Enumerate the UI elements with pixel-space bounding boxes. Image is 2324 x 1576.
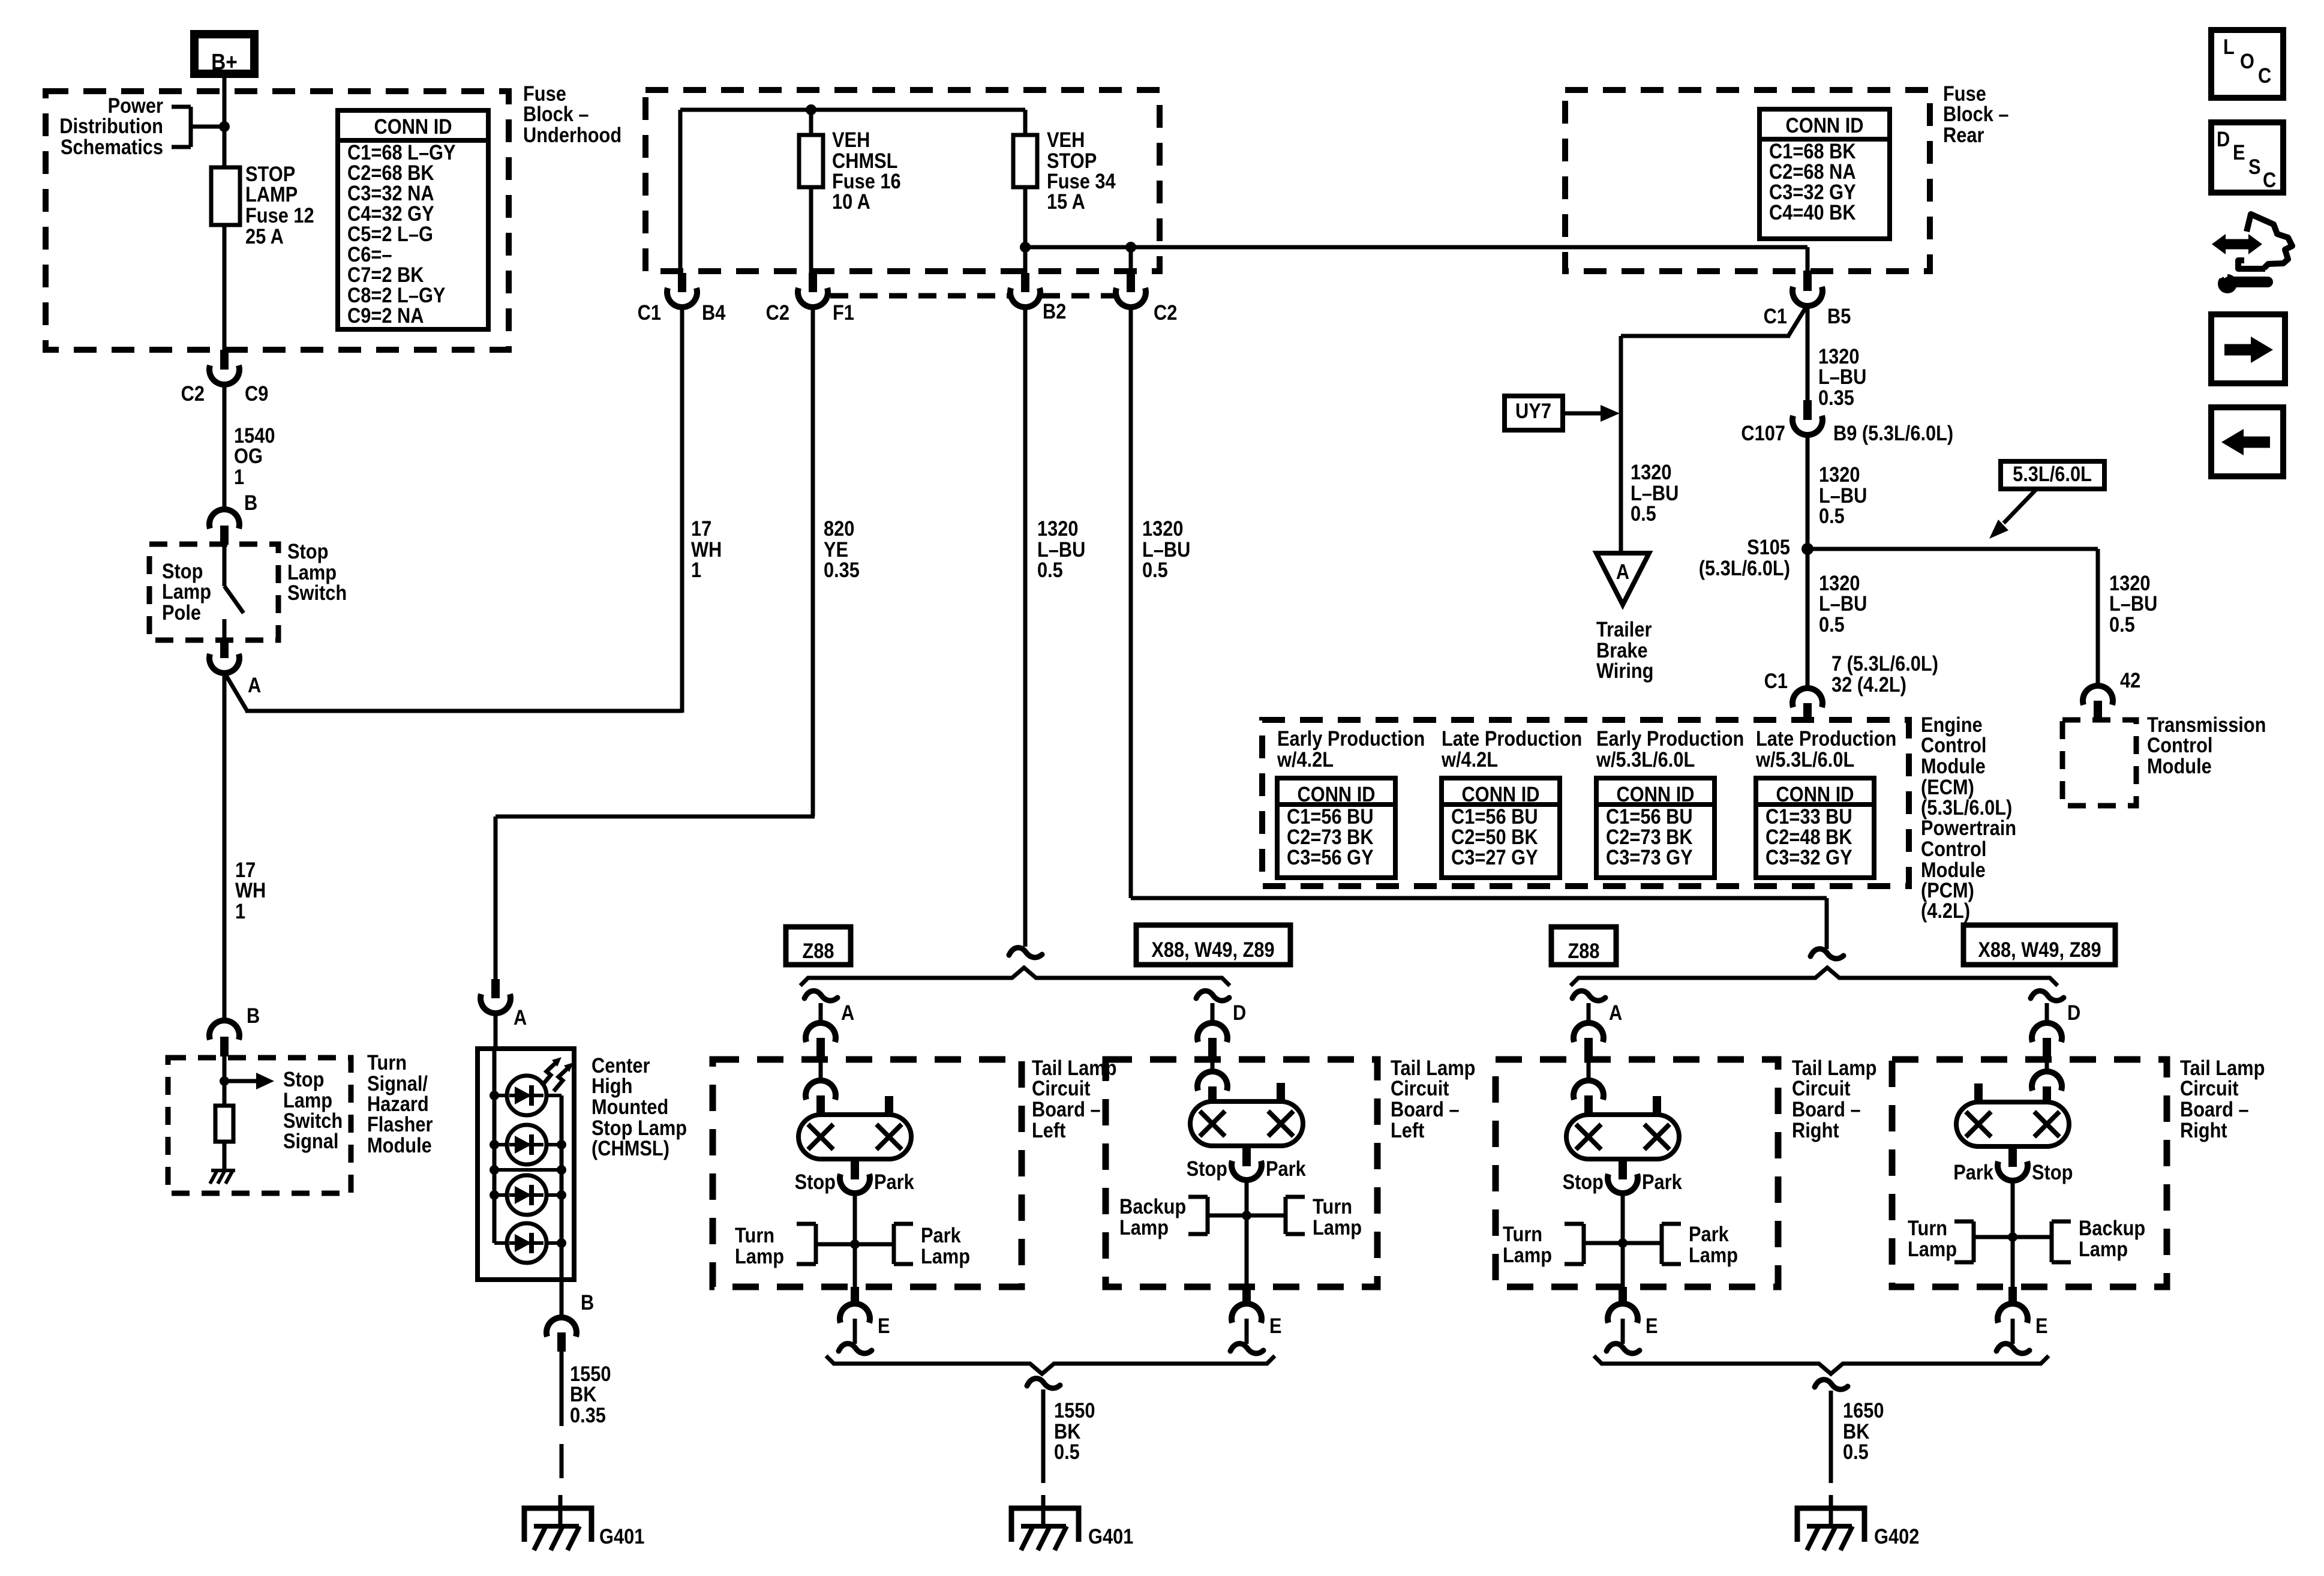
node C2 branch (1125, 242, 1136, 253)
tail lamp bulb (circuit 3) (1566, 1115, 1679, 1159)
label Stop Lamp Pole (162, 559, 211, 624)
label B4 (702, 301, 726, 324)
svg-text:E: E (1646, 1314, 1658, 1337)
label C2 (181, 382, 205, 405)
svg-text:15 A: 15 A (1047, 190, 1085, 213)
svg-text:Lamp: Lamp (1119, 1215, 1169, 1239)
CONN ID table (variant 4) (1756, 778, 1874, 878)
label G402 (tail lamps right) (1874, 1524, 1919, 1548)
node cross (circuit 4) (2008, 1232, 2017, 1242)
label C1 (ECM) (1764, 669, 1788, 692)
wire 1320 L-BU (C2 to right brace) (1131, 307, 1827, 949)
wire break clip (left stop feed) (1009, 948, 1042, 957)
wire break clip (right stop feed) (1810, 949, 1843, 959)
svg-text:Module: Module (2147, 754, 2212, 778)
connector 42 cup (TCM) (2083, 686, 2113, 705)
connector C2/C9 cup (209, 365, 239, 385)
bracket left (circuit 1) (797, 1224, 816, 1264)
CHMSL housing (478, 1049, 574, 1280)
wire A into CHMSL (494, 1011, 498, 1051)
label Stop (circuit 1) (795, 1170, 836, 1193)
wire break clip E (circuit 4) (1996, 1344, 2029, 1353)
connector B4 pin (678, 273, 686, 292)
svg-text:Left: Left (1032, 1118, 1065, 1142)
svg-text:B: B (581, 1290, 594, 1314)
label C2 (1154, 301, 1177, 324)
brace right pair feed (1571, 968, 2058, 986)
fuse block underhood box (left) (46, 91, 509, 350)
svg-text:Control: Control (1921, 733, 1986, 757)
label E (circuit 1) (878, 1314, 890, 1337)
svg-text:1320: 1320 (1142, 517, 1183, 540)
wire 1540 OG 1 (223, 383, 227, 511)
svg-text:Stop: Stop (283, 1067, 324, 1091)
svg-text:C107: C107 (1741, 421, 1785, 445)
label D (circuit 4) (2067, 1001, 2080, 1024)
wire 1650 BK 0.5 (1829, 1391, 1833, 1483)
wire S105 to TCM branch (1807, 549, 2098, 688)
cross line (circuit 2) (1208, 1214, 1286, 1218)
tail lamp circuit board box 2 (1106, 1059, 1377, 1287)
CONN ID table (variant 3) (1596, 778, 1715, 878)
svg-text:42: 42 (2120, 668, 2140, 692)
connector A stack (circuit 3) (1572, 991, 1605, 1117)
svg-text:Stop: Stop (1563, 1170, 1604, 1193)
RPO box Z88 (left) (786, 927, 851, 965)
svg-text:B2: B2 (1043, 299, 1066, 323)
wire stem (circuit 2) (1245, 1178, 1249, 1287)
svg-text:Late Production: Late Production (1756, 727, 1896, 750)
LED 2 (CHMSL) (507, 1125, 547, 1164)
tail lamp bulb (circuit 4) (1956, 1102, 2069, 1146)
wire B+ to Stop Lamp fuse (223, 78, 227, 167)
svg-text:7 (5.3L/6.0L): 7 (5.3L/6.0L) (1831, 652, 1938, 675)
icon box arrow right (2211, 314, 2285, 383)
svg-text:Board –: Board – (1391, 1097, 1460, 1121)
svg-text:BK: BK (570, 1382, 597, 1406)
ground G402 (tail lamps right) (1797, 1508, 1864, 1550)
label G401 (CHMSL) (599, 1524, 644, 1548)
label right lamp (circuit 2) (1313, 1194, 1362, 1239)
svg-text:Wiring: Wiring (1596, 659, 1653, 682)
svg-text:E: E (1269, 1314, 1282, 1337)
label B9 (5.3L/6.0L) (1833, 421, 1953, 445)
power distribution schematics bracket (172, 107, 224, 147)
wire branch to trailer brake (1621, 305, 1807, 553)
svg-text:1: 1 (691, 558, 701, 581)
svg-text:B4: B4 (702, 301, 726, 324)
label C2 (766, 301, 789, 324)
svg-text:LAMP: LAMP (245, 182, 298, 206)
label Stop Lamp Switch (287, 539, 347, 604)
wire break clip (left ground) (1027, 1379, 1060, 1388)
RPO box Z88 (right) (1551, 927, 1616, 965)
label C1 (638, 301, 661, 324)
connector A pin (CHMSL) (491, 979, 500, 998)
label (5.3L/6.0L) (1699, 556, 1790, 580)
connector A pin (stop lamp switch) (220, 638, 229, 658)
bulb open pin (circuit 3) (1653, 1096, 1661, 1116)
svg-text:Turn: Turn (367, 1050, 407, 1074)
svg-text:CONN ID: CONN ID (374, 115, 452, 138)
svg-text:E: E (2233, 140, 2245, 164)
label Fuse Block - Rear (1943, 82, 2009, 146)
wire stem (circuit 3) (1621, 1191, 1625, 1287)
label left lamp (circuit 1) (735, 1223, 784, 1268)
connector F1 pin (809, 273, 817, 292)
svg-text:Lamp: Lamp (1503, 1243, 1552, 1266)
svg-text:A: A (1609, 1001, 1622, 1024)
svg-text:A: A (1616, 560, 1629, 583)
label G401 (tail lamps left) (1088, 1524, 1133, 1548)
label D (circuit 2) (1233, 1001, 1246, 1024)
svg-text:E: E (2035, 1314, 2048, 1337)
wire into flasher (223, 1056, 227, 1106)
connector C1 cup (ECM) (1792, 688, 1822, 707)
svg-text:CONN ID: CONN ID (1617, 782, 1695, 806)
svg-text:G402: G402 (1874, 1524, 1919, 1548)
wire E down (circuit 2) (1245, 1319, 1249, 1344)
node cross (circuit 3) (1618, 1238, 1628, 1248)
svg-text:Module: Module (1921, 754, 1986, 778)
wire break clip E (circuit 2) (1230, 1344, 1263, 1353)
svg-text:1550: 1550 (1054, 1398, 1095, 1422)
svg-text:Lamp: Lamp (2079, 1237, 2128, 1260)
stop lamp switch box (149, 544, 278, 640)
label 17 WH 1 (switch signal) (235, 858, 266, 923)
svg-text:Park: Park (1689, 1222, 1729, 1245)
label VEH STOP Fuse 34 15 A (1047, 128, 1116, 213)
wire 1320 L-BU (B2 to left brace) (1023, 307, 1028, 947)
label Stop (circuit 4) (2032, 1160, 2073, 1184)
wire A branch to fuse block B4 (224, 308, 682, 713)
svg-text:Turn: Turn (1908, 1216, 1947, 1239)
svg-text:C1: C1 (638, 301, 661, 324)
svg-text:C: C (2263, 168, 2276, 191)
svg-text:0.35: 0.35 (824, 558, 860, 581)
svg-text:CONN ID: CONN ID (1776, 782, 1854, 806)
connector C107 cup (1792, 416, 1822, 435)
svg-text:w/5.3L/6.0L: w/5.3L/6.0L (1755, 748, 1854, 771)
svg-text:Lamp: Lamp (921, 1244, 970, 1268)
svg-text:C2: C2 (181, 382, 205, 405)
bulb filaments X (circuit 4) (1966, 1112, 2059, 1137)
label A (circuit 3) (1609, 1001, 1622, 1024)
fuse block underhood box (fuses) (645, 90, 1160, 271)
label 820 YE 0.35 (824, 517, 860, 581)
fuse 12 STOP LAMP 25 A (211, 167, 240, 225)
brace right pair grounds (1594, 1356, 2049, 1374)
svg-text:Lamp: Lamp (1908, 1237, 1957, 1260)
transmission control module box (2062, 720, 2136, 806)
svg-text:Module: Module (367, 1133, 432, 1157)
svg-text:CONN ID: CONN ID (1786, 113, 1864, 137)
svg-text:G401: G401 (1088, 1524, 1133, 1548)
wire break clip E (circuit 1) (839, 1344, 872, 1353)
icon box arrow left (2211, 407, 2283, 476)
connector B pin (stop lamp switch) (220, 526, 229, 545)
svg-text:B+: B+ (211, 49, 238, 74)
svg-text:X88, W49, Z89: X88, W49, Z89 (1151, 938, 1274, 961)
svg-text:A: A (248, 673, 261, 697)
svg-text:820: 820 (824, 517, 854, 540)
wire resistor to ground (223, 1142, 227, 1170)
wire E down (circuit 3) (1621, 1319, 1625, 1344)
svg-text:B: B (244, 491, 257, 514)
label 1320 L-BU 0.5 (TCM) (2109, 571, 2157, 636)
label Park (circuit 4) (1953, 1160, 1993, 1184)
svg-text:C1: C1 (1764, 669, 1788, 692)
label 1320 L-BU 0.35 (1818, 344, 1866, 409)
CHMSL internal buses (494, 1051, 562, 1280)
CONN ID table (fuse block underhood) (338, 110, 488, 329)
LED 3 (CHMSL) (507, 1175, 547, 1215)
svg-text:Pole: Pole (162, 601, 201, 624)
svg-text:Powertrain: Powertrain (1921, 816, 2016, 839)
svg-text:Circuit: Circuit (1792, 1076, 1851, 1100)
connector E cup (circuit 3) (1608, 1304, 1638, 1323)
bracket left (circuit 2) (1188, 1197, 1208, 1234)
ground G401 (CHMSL) (524, 1508, 591, 1550)
svg-text:25 A: 25 A (245, 224, 284, 248)
label B2 (1043, 299, 1066, 323)
wire S105 to ECM C1 (1806, 549, 1810, 689)
svg-text:Board –: Board – (1792, 1097, 1861, 1121)
svg-text:B9 (5.3L/6.0L): B9 (5.3L/6.0L) (1833, 421, 1953, 445)
wire break clip E (circuit 3) (1607, 1344, 1640, 1353)
5.3L/6.0L callout box (2001, 461, 2104, 489)
svg-text:Lamp: Lamp (735, 1244, 784, 1268)
bracket right (circuit 2) (1286, 1197, 1305, 1234)
svg-text:E: E (878, 1314, 890, 1337)
connector Stop/Park cup (circuit 4) (1998, 1161, 2028, 1181)
svg-text:A: A (514, 1005, 527, 1029)
CHMSL light emission arrows (542, 1057, 574, 1091)
svg-text:B5: B5 (1827, 304, 1851, 328)
svg-text:Block –: Block – (1943, 102, 2009, 125)
svg-text:Distribution: Distribution (59, 114, 163, 137)
bracket left (circuit 4) (1954, 1221, 1974, 1262)
chassis ground (flasher internal) (210, 1170, 235, 1184)
connector 42 pin (TCM) (2094, 701, 2102, 720)
svg-text:0.5: 0.5 (1631, 502, 1656, 525)
wire stop feed to rear block (1025, 245, 1807, 250)
RPO box X88 W49 Z89 (left) (1136, 925, 1290, 965)
svg-text:G401: G401 (599, 1524, 644, 1548)
connector F1 cup (798, 288, 828, 307)
bulb stem pin (circuit 3) (1619, 1159, 1627, 1179)
svg-text:Circuit: Circuit (2180, 1076, 2239, 1100)
node bus to CHMSL fuse (806, 104, 816, 115)
label left lamp (circuit 2) (1119, 1194, 1186, 1239)
svg-text:Switch: Switch (287, 581, 347, 604)
connector B pin (flasher module) (220, 1037, 229, 1056)
svg-text:Control: Control (1921, 837, 1986, 860)
label 1650 BK 0.5 (1843, 1398, 1884, 1463)
svg-text:Lamp: Lamp (162, 580, 211, 603)
label 17 WH 1 (B4 wire) (691, 517, 722, 581)
connector E pin (circuit 3) (1619, 1287, 1627, 1305)
svg-text:Circuit: Circuit (1391, 1076, 1449, 1100)
label 1320 L-BU 0.5 (B9) (1819, 463, 1867, 527)
label E (circuit 2) (1269, 1314, 1282, 1337)
label Transmission Control Module (2147, 713, 2266, 778)
svg-text:C1: C1 (1764, 304, 1787, 328)
svg-text:Lamp: Lamp (1313, 1215, 1362, 1239)
svg-text:D: D (1233, 1001, 1246, 1024)
svg-text:L–BU: L–BU (2109, 592, 2157, 615)
label A (CHMSL) (514, 1005, 527, 1029)
tail lamp bulb (circuit 2) (1190, 1101, 1303, 1146)
svg-text:Flasher: Flasher (367, 1112, 433, 1136)
svg-text:L: L (2223, 35, 2235, 58)
svg-text:Turn: Turn (1313, 1194, 1352, 1218)
connector E cup (circuit 2) (1232, 1304, 1262, 1323)
svg-text:CONN ID: CONN ID (1462, 782, 1540, 806)
label 32 (4.2L) (1831, 673, 1906, 696)
label Fuse Block - Underhood (523, 82, 621, 146)
svg-text:L–BU: L–BU (1819, 592, 1867, 615)
svg-text:1: 1 (234, 465, 244, 488)
connector Stop/Park cup (circuit 2) (1232, 1161, 1262, 1180)
svg-text:S: S (2248, 155, 2261, 178)
cross line (circuit 3) (1584, 1241, 1662, 1245)
wire node to C2 pin (1129, 247, 1133, 274)
label F1 (833, 301, 854, 324)
wire stem (circuit 4) (2011, 1179, 2015, 1287)
svg-text:Late Production: Late Production (1442, 727, 1582, 750)
battery positive voltage symbol B+ (194, 34, 254, 74)
svg-text:0.5: 0.5 (1142, 558, 1168, 581)
svg-text:w/4.2L: w/4.2L (1441, 748, 1498, 771)
label tail lamp board 4 (2180, 1056, 2265, 1142)
connector A cup (CHMSL) (481, 994, 511, 1013)
bulb open pin (circuit 1) (885, 1096, 893, 1116)
node VEH STOP output (1020, 242, 1031, 253)
svg-text:0.5: 0.5 (2109, 613, 2135, 636)
connector E pin (circuit 4) (2008, 1287, 2017, 1305)
svg-text:Park: Park (874, 1170, 914, 1193)
label 1320 L-BU 0.5 (trailer) (1631, 460, 1679, 525)
UY7 option box (1505, 396, 1563, 430)
connector row dashed link (830, 293, 1115, 299)
svg-text:1320: 1320 (1819, 463, 1860, 486)
svg-text:Block –: Block – (523, 102, 589, 125)
node stop lamp switch signal (220, 1076, 229, 1086)
svg-text:VEH: VEH (832, 128, 870, 151)
label Engine Control Module ECM PCM (1921, 713, 2016, 922)
bulb stem pin (circuit 2) (1242, 1146, 1251, 1166)
wire node to B5 pin (1806, 247, 1810, 273)
svg-text:1650: 1650 (1843, 1398, 1884, 1422)
tail lamp circuit board box 4 (1892, 1059, 2167, 1287)
connector A cup (stop lamp switch) (209, 654, 239, 673)
svg-text:O: O (2240, 49, 2254, 73)
svg-text:w/5.3L/6.0L: w/5.3L/6.0L (1596, 748, 1695, 771)
label 1550 BK 0.35 (570, 1362, 611, 1427)
label tail lamp board 3 (1792, 1056, 1876, 1142)
svg-text:w/4.2L: w/4.2L (1277, 748, 1334, 771)
connector C2 cup (rear feed) (1116, 288, 1146, 307)
svg-text:Schematics: Schematics (61, 135, 163, 158)
UY7 arrow (1563, 405, 1620, 422)
label right lamp (circuit 1) (921, 1223, 970, 1268)
CONN ID table (variant 1) (1277, 778, 1395, 878)
connector C2 pin (rear feed) (1127, 273, 1135, 292)
label Power Distribution Schematics (59, 94, 163, 158)
svg-text:Trailer: Trailer (1596, 617, 1652, 641)
svg-text:Park: Park (1953, 1160, 1993, 1184)
svg-text:C3=27 GY: C3=27 GY (1451, 845, 1538, 869)
svg-text:Early Production: Early Production (1596, 727, 1744, 750)
connector A stack (circuit 1) (804, 991, 837, 1117)
wire stub to G402 (1829, 1495, 1833, 1526)
resistor (flasher internal) (215, 1106, 233, 1142)
tail lamp bulb (circuit 1) (798, 1115, 911, 1159)
connector B4 cup (667, 288, 697, 307)
label STOP LAMP Fuse 12 25 A (245, 162, 314, 248)
svg-text:Underhood: Underhood (523, 123, 621, 146)
label B (CHMSL) (581, 1290, 594, 1314)
svg-text:UY7: UY7 (1515, 399, 1551, 422)
svg-text:C3=32 GY: C3=32 GY (1765, 845, 1852, 869)
trailer brake wiring triangle A (1596, 553, 1649, 605)
CONN ID table (fuse block rear) (1759, 109, 1890, 239)
wire E down (circuit 1) (853, 1319, 857, 1344)
svg-text:1320: 1320 (1631, 460, 1671, 484)
svg-text:Park: Park (1266, 1157, 1306, 1180)
svg-text:Backup: Backup (2079, 1216, 2145, 1239)
wire bus to VEH CHMSL fuse (809, 110, 813, 135)
connector B cup (flasher module) (209, 1020, 239, 1040)
svg-text:Stop: Stop (287, 539, 328, 563)
connector Stop/Park cup (circuit 3) (1608, 1174, 1638, 1193)
svg-text:High: High (591, 1074, 632, 1097)
wire dashed to G401 (560, 1444, 562, 1526)
svg-text:C9=2 NA: C9=2 NA (347, 304, 424, 327)
cross line (circuit 4) (1974, 1235, 2052, 1239)
label Park (circuit 3) (1642, 1170, 1682, 1193)
wire stub to G401 (1041, 1495, 1046, 1526)
wire C107 to S105 (1806, 434, 1810, 549)
svg-text:0.5: 0.5 (1819, 504, 1845, 527)
label 7 (5.3L/6.0L) (1831, 652, 1938, 675)
wire break clip (right ground) (1815, 1380, 1848, 1389)
5.3L/6.0L callout arrow (1989, 489, 2037, 539)
svg-text:0.5: 0.5 (1054, 1440, 1080, 1463)
svg-text:Stop: Stop (1187, 1157, 1227, 1180)
svg-text:Board –: Board – (2180, 1097, 2249, 1121)
label production variant 3 (1596, 727, 1744, 771)
label A (stop lamp switch) (248, 673, 261, 697)
bracket right (circuit 4) (2052, 1221, 2071, 1262)
label tail lamp board 1 (1032, 1056, 1116, 1142)
svg-text:0.35: 0.35 (570, 1403, 606, 1427)
connector B2 cup (1010, 288, 1040, 307)
svg-text:Lamp: Lamp (1689, 1243, 1738, 1266)
svg-text:Fuse 12: Fuse 12 (245, 203, 314, 227)
svg-text:Control: Control (2147, 733, 2212, 757)
svg-text:D: D (2067, 1001, 2080, 1024)
label B5 (1827, 304, 1851, 328)
node cross (circuit 2) (1242, 1211, 1251, 1220)
svg-text:C4=40 BK: C4=40 BK (1769, 200, 1856, 224)
wire stem (circuit 1) (853, 1191, 857, 1287)
bulb open pin (circuit 2) (1277, 1083, 1285, 1103)
label VEH CHMSL Fuse 16 10 A (832, 128, 901, 213)
node junction to power distribution (219, 121, 230, 132)
ECM PCM box (1262, 720, 1909, 886)
